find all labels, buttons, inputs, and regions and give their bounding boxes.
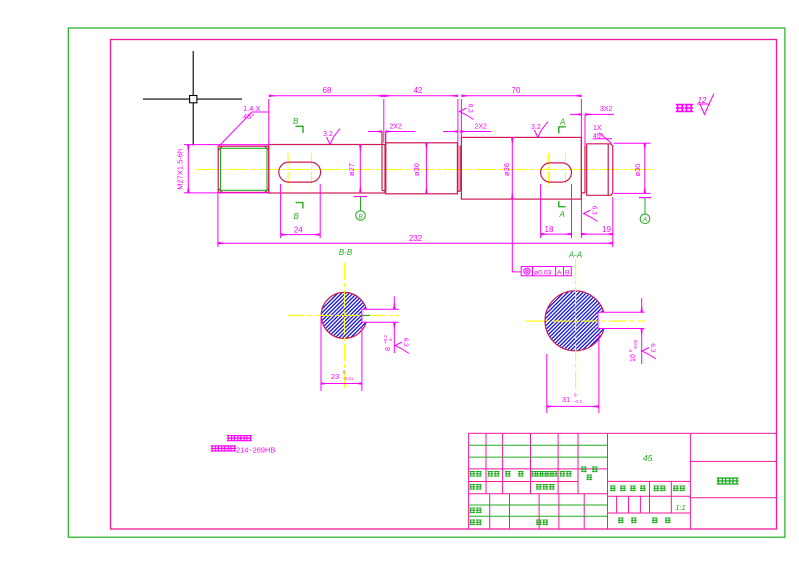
svg-text:B: B [565, 269, 570, 276]
surface note (qiyu) top right [676, 104, 693, 112]
roughness 6.3 at A-A keyway [642, 343, 656, 359]
svg-text:70: 70 [512, 86, 521, 95]
roughness 3.2 on S4 [534, 122, 548, 138]
dimension M27X1.5-6h [184, 145, 269, 193]
dimension dia36 [511, 137, 513, 199]
svg-text:3X2: 3X2 [600, 106, 613, 113]
svg-text:A: A [559, 118, 565, 127]
centerline horizontal [525, 320, 645, 322]
shenhe row [470, 508, 476, 514]
keyway slot S4 [541, 163, 572, 182]
svg-text:B: B [358, 213, 363, 220]
svg-text:B-B: B-B [339, 248, 353, 257]
dimension 2x2 right [443, 131, 491, 133]
geometric tolerance frame [521, 267, 571, 276]
section mark A top [559, 127, 566, 134]
svg-text:B: B [294, 212, 300, 221]
title block grid [469, 433, 777, 529]
thread minor-diameter rectangle (green) [221, 148, 268, 190]
datum A (right) [639, 197, 651, 199]
relief groove 3x2 (S4/S5) [584, 146, 586, 193]
svg-text:A: A [559, 210, 565, 219]
chamfer callout 1x45 right [593, 133, 612, 144]
svg-text:10: 10 [630, 354, 637, 362]
left table verticals lower zone [489, 494, 491, 529]
jieduanbiaoji [610, 486, 616, 492]
centerline vertical [343, 263, 345, 390]
svg-text:6.3: 6.3 [590, 206, 597, 215]
dimension dia30 right [614, 143, 651, 193]
green dash in keyway [362, 314, 370, 316]
svg-text:42: 42 [414, 86, 423, 95]
centerline horizontal [288, 314, 400, 316]
keyway centerline S4 right [565, 153, 567, 187]
svg-text:12: 12 [698, 96, 707, 105]
svg-text:2X2: 2X2 [390, 124, 403, 131]
svg-text:ø36: ø36 [502, 163, 511, 176]
svg-text:19: 19 [602, 225, 611, 234]
dimension dia27 [359, 145, 361, 194]
title block text row: biaoji/chushu/fenqu/genggai/qianming [470, 467, 686, 526]
svg-text:23: 23 [331, 372, 339, 381]
part name chuandongzhou [717, 477, 739, 484]
dimension 232 [218, 193, 613, 247]
roughness 6.3 at shoulder (42/70) [460, 104, 474, 120]
dimension 23 [321, 317, 362, 392]
hatched circle B-B [321, 292, 367, 338]
svg-text:3.2: 3.2 [531, 124, 541, 131]
keyway width lines 8 [362, 296, 399, 353]
left table verticals upper zone [485, 433, 487, 493]
keyway notch cut B-B [362, 309, 369, 322]
svg-text:0: 0 [388, 338, 393, 341]
svg-text:B: B [293, 117, 299, 126]
svg-text:-0.21: -0.21 [343, 376, 354, 381]
dimension 68 [269, 96, 384, 145]
dimension 19 [581, 197, 612, 247]
sheji row [470, 484, 476, 490]
svg-text:0: 0 [343, 370, 346, 375]
relief groove 2x2 (S2/S3) [381, 132, 383, 191]
section S3 dia30 [386, 143, 458, 194]
svg-text:ø30: ø30 [412, 163, 421, 176]
svg-text:45°: 45° [593, 132, 604, 140]
svg-text:0: 0 [574, 393, 577, 398]
roughness 12.5 symbol [697, 94, 714, 115]
dimension 18 (keyway length) [541, 184, 572, 238]
dimension dia30 [425, 143, 427, 194]
svg-text:1:1: 1:1 [675, 503, 685, 512]
dimension 3x2 [570, 114, 614, 146]
crosshair cursor [143, 51, 242, 146]
svg-text:ø30: ø30 [633, 164, 642, 177]
main yellow centerline [196, 169, 654, 171]
svg-text:8: 8 [385, 347, 392, 351]
svg-text:A: A [557, 269, 562, 276]
svg-text:214~269HB: 214~269HB [236, 446, 275, 455]
keyway width lines 10 [598, 298, 644, 364]
keyway centerline S4 left [548, 153, 550, 187]
svg-text:1X: 1X [593, 125, 602, 132]
roughness 6.3 at B-B keyway [395, 338, 409, 354]
dimension 42 [384, 95, 458, 97]
svg-text:45°: 45° [243, 112, 254, 121]
svg-text:6.3: 6.3 [466, 104, 473, 113]
svg-text:45: 45 [643, 453, 653, 463]
roughness 3.2 on S2 [327, 129, 341, 145]
centerline vertical [575, 259, 577, 393]
svg-text:232: 232 [409, 234, 423, 243]
title block green horizontals [469, 445, 608, 516]
section S1 threaded M27 [218, 146, 269, 192]
inner border frame (magenta) [111, 40, 777, 530]
left table horizontals magenta [469, 468, 608, 470]
svg-text:ø0.03: ø0.03 [534, 269, 552, 276]
gongyi row [470, 520, 476, 526]
section mark B bottom [296, 203, 303, 209]
section S2 dia27 [269, 145, 385, 194]
svg-text:31: 31 [562, 395, 570, 404]
relief groove 2x2 (S3/S4) [457, 146, 459, 192]
svg-text:6.3: 6.3 [402, 338, 409, 347]
right column rows [690, 460, 776, 462]
keyway notch cut A-A [598, 312, 607, 328]
datum B (left) [354, 196, 367, 198]
keyway slot S2 [279, 162, 321, 182]
section S5 dia30 right end [587, 144, 613, 196]
roughness 6.3 at right shoulder [584, 206, 598, 222]
geometric tolerance frame leader [512, 199, 521, 272]
gong zhang di zhang [618, 518, 624, 524]
technical requirement note line1 [227, 435, 252, 441]
dimension 24 (keyway length) [281, 184, 321, 238]
technical requirement note line2 [211, 445, 236, 451]
svg-text:3.2: 3.2 [323, 131, 333, 138]
svg-text:-0.03: -0.03 [633, 339, 638, 350]
section S4 dia36 [461, 137, 581, 199]
right side rows [608, 480, 691, 482]
svg-text:A: A [642, 217, 647, 224]
section mark B top [296, 126, 304, 133]
section mark A bottom [559, 201, 566, 207]
svg-text:A-A: A-A [568, 251, 582, 260]
svg-text:-0.2: -0.2 [574, 399, 582, 404]
svg-text:24: 24 [294, 225, 303, 234]
dimension 2x2 left [368, 131, 415, 133]
chamfer callout 1.4x45 [219, 112, 269, 146]
svg-text:M27X1.5-6h: M27X1.5-6h [176, 149, 185, 190]
hatched circle A-A [545, 291, 605, 351]
svg-text:2X2: 2X2 [475, 124, 488, 131]
shaft outline [218, 132, 613, 200]
svg-text:ø27: ø27 [347, 163, 356, 176]
keyway centerline S2 right [311, 153, 313, 187]
dimension 31 [547, 333, 599, 413]
dimension 70 [458, 96, 582, 146]
keyway centerline S2 left [287, 153, 289, 187]
svg-text:68: 68 [323, 86, 332, 95]
svg-text:18: 18 [545, 225, 554, 234]
svg-text:6.3: 6.3 [649, 343, 656, 352]
